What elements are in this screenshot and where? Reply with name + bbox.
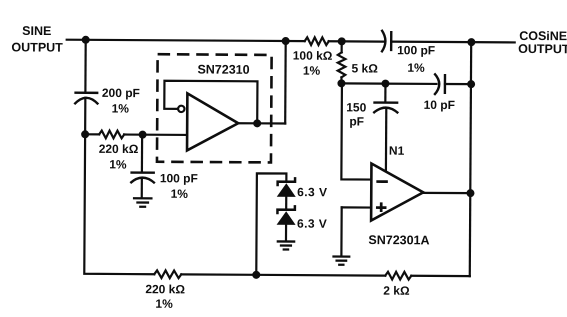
svg-text:1%: 1% — [109, 157, 127, 171]
svg-text:1%: 1% — [155, 297, 173, 311]
svg-text:220 kΩ: 220 kΩ — [145, 282, 185, 296]
svg-text:N1: N1 — [389, 144, 405, 158]
svg-text:5 kΩ: 5 kΩ — [351, 61, 378, 75]
svg-text:OUTPUT: OUTPUT — [518, 42, 567, 56]
svg-text:100 pF: 100 pF — [160, 171, 198, 185]
svg-text:1%: 1% — [407, 61, 425, 75]
svg-text:SN72310: SN72310 — [197, 62, 249, 76]
svg-text:100 kΩ: 100 kΩ — [293, 49, 333, 63]
svg-text:pF: pF — [349, 114, 364, 128]
svg-text:2 kΩ: 2 kΩ — [383, 284, 410, 298]
svg-text:SN72301A: SN72301A — [368, 233, 429, 247]
svg-text:200 pF: 200 pF — [102, 86, 140, 100]
svg-text:100 pF: 100 pF — [397, 43, 435, 57]
svg-text:1%: 1% — [171, 187, 189, 201]
svg-text:OUTPUT: OUTPUT — [11, 40, 63, 54]
svg-text:1%: 1% — [112, 101, 130, 115]
svg-text:10 pF: 10 pF — [424, 98, 455, 112]
svg-text:220 kΩ: 220 kΩ — [99, 142, 139, 156]
svg-text:6.3 V: 6.3 V — [297, 185, 327, 199]
svg-text:150: 150 — [346, 100, 366, 114]
svg-text:SINE: SINE — [22, 24, 51, 38]
svg-text:6.3 V: 6.3 V — [297, 217, 327, 231]
svg-text:1%: 1% — [303, 64, 321, 78]
